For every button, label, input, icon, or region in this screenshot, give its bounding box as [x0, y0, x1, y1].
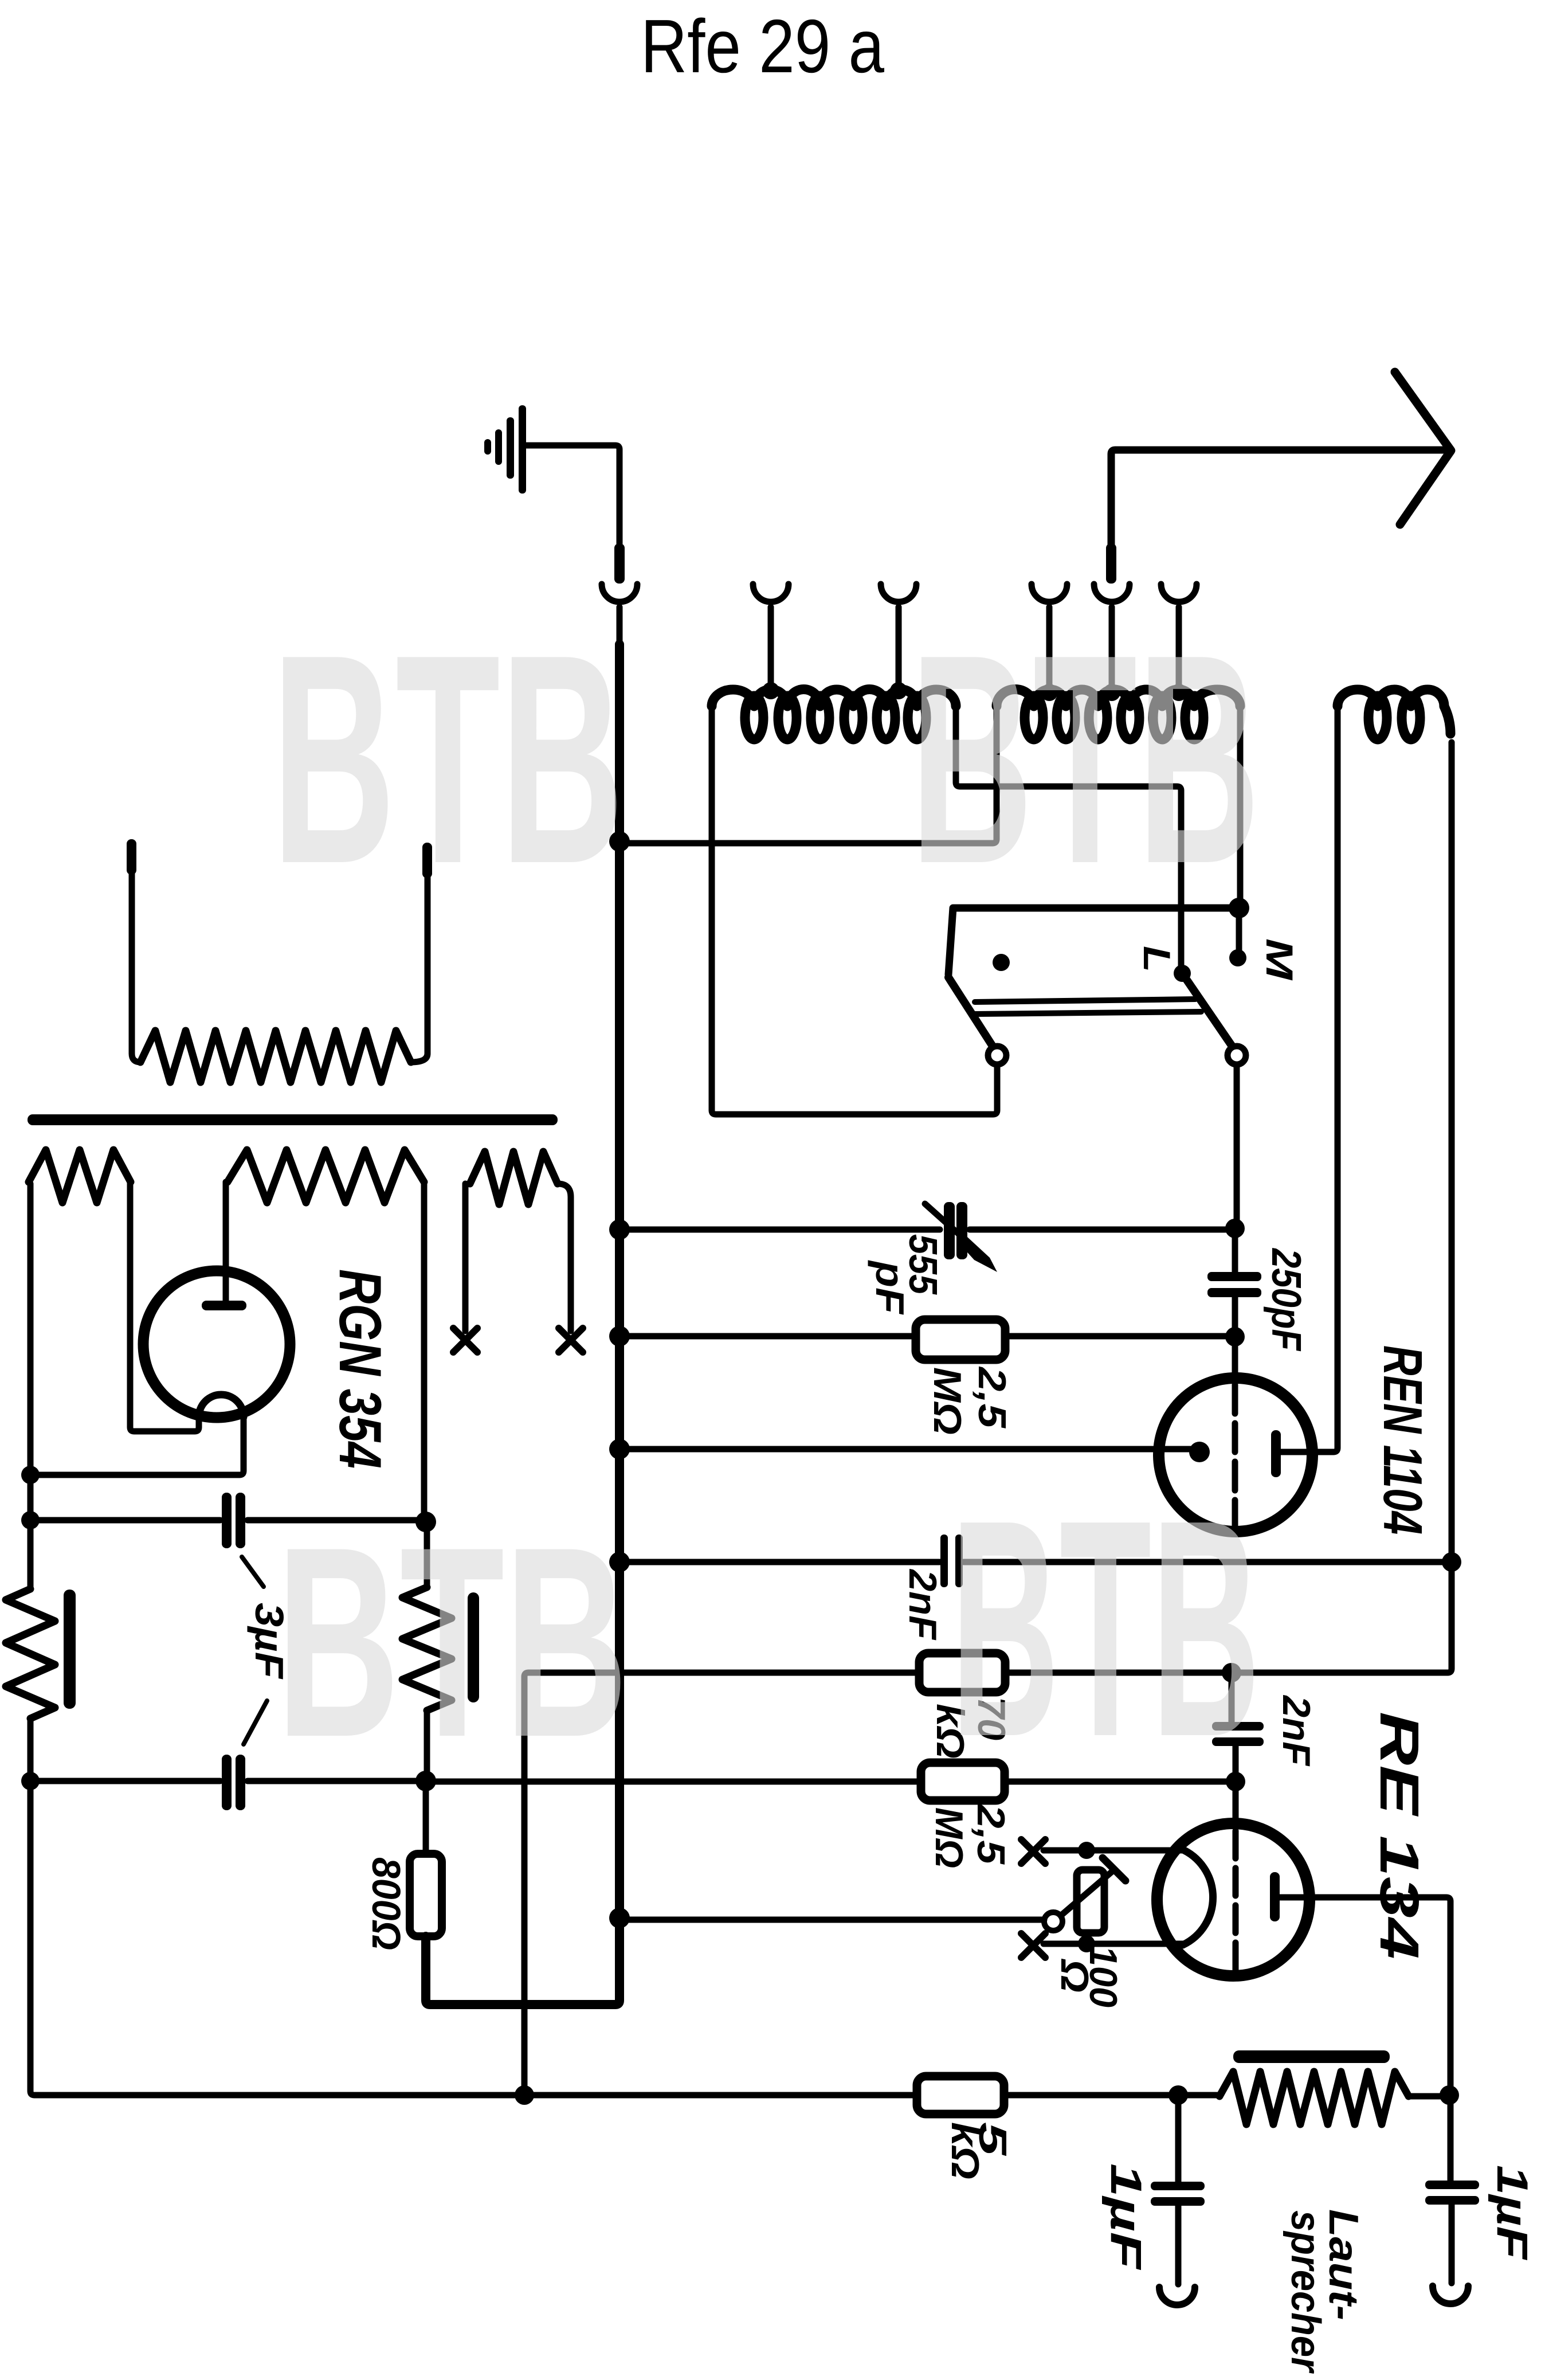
- node 3uF1 left: [21, 1511, 40, 1529]
- node switch rail: [1229, 898, 1249, 918]
- RGN filament arc: [199, 1395, 244, 1417]
- wire 3uF2 node to 2.5M2: [30, 1778, 220, 1784]
- svg-text:kΩ: kΩ: [943, 2122, 987, 2179]
- wire Rc left lead: [462, 1184, 469, 1331]
- x terminal lower: [1021, 1933, 1045, 1958]
- wire coil1 right to contact L: [956, 706, 1181, 968]
- wire node to 800ohm: [423, 1784, 429, 1854]
- node rail-grid return: [515, 2085, 534, 2105]
- tube REN 1104: [1159, 1378, 1312, 1532]
- svg-text:pF: pF: [868, 1260, 912, 1316]
- svg-text:Ω: Ω: [1053, 1958, 1096, 1993]
- capacitor 2nF (1): [940, 1535, 963, 1587]
- wire REN anode to coil L3: [1281, 706, 1338, 1452]
- wire bus to pot wiper: [619, 1917, 1044, 1923]
- variable capacitor 555pF: [925, 1202, 997, 1272]
- wire RE134 anode to output: [1280, 1897, 1450, 2089]
- node pot bottom: [1078, 1935, 1095, 1952]
- terminal socket 1 (ground/bus): [602, 584, 637, 644]
- wire node to Rd: [424, 1526, 430, 1587]
- inductor coil L3 (reaction): [1338, 690, 1450, 739]
- wire speaker to node: [1409, 2093, 1446, 2100]
- svg-text:2nF: 2nF: [901, 1568, 944, 1640]
- capacitor 3uF (2): [222, 1755, 245, 1810]
- wire 2.5M to grid node: [1005, 1333, 1232, 1340]
- wire bus to REN cathode: [619, 1446, 1192, 1453]
- capacitor bar left: [64, 1590, 76, 1709]
- resistor Ra (filament shunt): [29, 1150, 131, 1203]
- wire left column lower: [28, 1719, 34, 1777]
- switch lever right: [1182, 973, 1246, 1064]
- wire Rc right lead: [558, 1184, 571, 1331]
- dropper lead left: [132, 873, 140, 1062]
- node 800ohm top: [415, 1771, 436, 1791]
- svg-text:BTB: BTB: [951, 1456, 1260, 1801]
- svg-text:800Ω: 800Ω: [364, 1857, 409, 1950]
- svg-text:2nF: 2nF: [1275, 1694, 1318, 1766]
- node 1uF2 top: [1440, 2085, 1459, 2105]
- inductor coil L1: [712, 689, 956, 739]
- contact L: [1174, 965, 1191, 982]
- terminal socket 3: [881, 584, 916, 688]
- node coil3-2nF: [1442, 1552, 1461, 1572]
- node 3uF2 left: [21, 1772, 40, 1790]
- wire bus to coil2 left end: [619, 706, 997, 843]
- switch pivot dot: [993, 954, 1010, 971]
- tube RE 134: [1157, 1823, 1309, 1976]
- wire left column to bottom rail: [30, 1785, 917, 2095]
- node bus-wiper: [609, 1908, 630, 1928]
- x terminal Rc left: [453, 1328, 477, 1352]
- node bus-2nF: [609, 1552, 630, 1572]
- wire left column upper: [28, 1184, 34, 1471]
- potentiometer 100ohm: [1061, 1858, 1126, 1933]
- switch frame: [948, 908, 1239, 974]
- node grid REN: [1225, 1327, 1245, 1346]
- terminal socket 6: [1161, 584, 1197, 691]
- terminal socket 5 (antenna): [1094, 584, 1130, 691]
- inductor coil L2: [997, 690, 1240, 739]
- wire 2.5M2 to grid node: [1005, 1779, 1232, 1785]
- svg-text:BTB: BTB: [272, 593, 624, 926]
- capacitor bar right: [468, 1592, 479, 1702]
- resistor Rc (heater): [470, 1152, 558, 1204]
- terminal socket 2: [753, 584, 789, 688]
- node coil2 tap b: [1103, 684, 1120, 701]
- node filament return: [21, 1466, 40, 1484]
- wire 3uF2 to node: [248, 1778, 422, 1784]
- node grid RE134: [1226, 1772, 1245, 1791]
- svg-text:250pF: 250pF: [1263, 1247, 1309, 1351]
- grid lead RE134: [1233, 1785, 1239, 1824]
- svg-text:REN 1104: REN 1104: [1372, 1345, 1433, 1535]
- grid lead REN 1104: [1232, 1341, 1238, 1378]
- wire filament left to Ra: [130, 1182, 199, 1431]
- wire coil3 right end down: [1449, 742, 1455, 1557]
- svg-text:Rfe 29 a: Rfe 29 a: [641, 4, 884, 88]
- svg-text:RE 134: RE 134: [1368, 1712, 1430, 1959]
- tube RGN 354: [143, 1271, 290, 1418]
- wire Rd to node: [424, 1710, 430, 1777]
- node bus-cathode: [609, 1439, 630, 1459]
- svg-text:RGN 354: RGN 354: [327, 1269, 393, 1469]
- svg-text:MΩ: MΩ: [927, 1807, 971, 1868]
- node bus-555pF: [609, 1219, 630, 1240]
- pot wiper contact: [1044, 1912, 1062, 1931]
- contact M stub: [1236, 913, 1242, 950]
- ground plug pin: [614, 543, 625, 584]
- wire 5k to speaker: [1004, 2092, 1219, 2099]
- wire 555pF to junction: [970, 1227, 1232, 1233]
- RGN anode plate: [202, 1301, 246, 1310]
- x terminal upper: [1021, 1839, 1045, 1864]
- wire bus to 2.5M resistor: [619, 1333, 916, 1340]
- svg-text:2,5: 2,5: [969, 1803, 1013, 1865]
- node pot top: [1078, 1842, 1095, 1859]
- capacitor 3uF (1): [222, 1493, 245, 1548]
- REN cathode dot: [1189, 1442, 1210, 1462]
- antenna plug pin: [1106, 543, 1116, 584]
- capacitor 250pF: [1207, 1230, 1261, 1333]
- antenna: [1111, 372, 1451, 545]
- svg-text:BTB: BTB: [276, 1491, 628, 1794]
- wire left column to resistor: [28, 1524, 34, 1589]
- resistor 70k: [919, 1653, 1005, 1692]
- wire 2nF to coil3 node: [964, 1559, 1448, 1565]
- svg-text:sprecher: sprecher: [1283, 2210, 1328, 2374]
- capacitor 1uF (2): [1425, 2099, 1479, 2283]
- node 1uF1 top: [1168, 2085, 1188, 2105]
- node bus-coil2: [609, 831, 630, 852]
- RE134 anode plate: [1270, 1872, 1280, 1921]
- svg-text:MΩ: MΩ: [926, 1367, 969, 1435]
- resistor 800ohm: [410, 1854, 442, 1936]
- node 3uF1 right: [415, 1512, 436, 1532]
- ground: [484, 405, 619, 543]
- node bus-2.5M: [609, 1326, 630, 1346]
- capacitor 2nF (2): [1212, 1673, 1264, 1778]
- wire x to filament top: [1044, 1847, 1182, 1854]
- svg-text:1µF: 1µF: [1101, 2163, 1150, 2271]
- wire x to filament bottom: [1044, 1941, 1184, 1947]
- REN anode plate: [1271, 1430, 1281, 1477]
- RGN anode lead: [223, 1182, 229, 1301]
- resistor 2.5M (grid leak REN): [916, 1320, 1005, 1360]
- svg-text:BTB: BTB: [910, 593, 1260, 926]
- wire 70k to left corner down to rail: [524, 1673, 919, 2091]
- switch lever left: [948, 977, 1006, 1064]
- wire bus to 555pF: [619, 1227, 940, 1233]
- node 2nF2 tap: [1222, 1663, 1241, 1682]
- wire filament right to node: [34, 1416, 244, 1475]
- svg-text:2,5: 2,5: [970, 1366, 1014, 1429]
- node coil2 tap a: [1041, 684, 1058, 701]
- dropper resistor: [140, 1031, 411, 1082]
- wire node to 3uF1: [34, 1517, 220, 1524]
- svg-text:1µF: 1µF: [1488, 2165, 1536, 2261]
- wire node to 2.5M2: [429, 1779, 921, 1785]
- wire lever to 555pF junction: [1234, 1064, 1240, 1224]
- wire left column mid: [28, 1479, 34, 1516]
- output hook 2: [1433, 2286, 1468, 2304]
- wire coil2 right end: [1237, 706, 1244, 908]
- switch coupling bar: [975, 999, 1201, 1014]
- output hook 1: [1159, 2287, 1195, 2305]
- 3uF pointer dashes: [242, 1557, 267, 1744]
- node coil2 tap c: [1170, 684, 1187, 701]
- node coil1 tap b: [890, 682, 907, 699]
- main bus wire: [426, 644, 619, 2005]
- resistor Rd: [402, 1587, 452, 1710]
- svg-text:L: L: [1136, 946, 1178, 972]
- resistor anode bleeder left: [6, 1589, 55, 1719]
- resistor 5k: [917, 2076, 1004, 2114]
- wire bus to 2nF: [619, 1559, 940, 1565]
- node coil1 tap a: [762, 682, 779, 699]
- loudspeaker winding: [1219, 2050, 1409, 2124]
- x terminal Rc right: [559, 1328, 583, 1352]
- resistor Rb (anode feed): [228, 1150, 424, 1203]
- capacitor 1uF (1): [1151, 2099, 1205, 2284]
- wire coil1 left to switch lever: [712, 706, 997, 1114]
- dropper lead right: [411, 876, 428, 1062]
- wire grid circuit RE134 right part: [1006, 1567, 1452, 1673]
- battery bar: [28, 1114, 558, 1125]
- contact M: [1229, 949, 1246, 966]
- wire Rb right lead: [421, 1182, 428, 1518]
- wire 3uF1 to node: [248, 1517, 422, 1524]
- terminal socket 4: [1032, 584, 1067, 691]
- node 555pF-M: [1225, 1219, 1245, 1238]
- svg-text:M: M: [1258, 938, 1301, 981]
- RE134 filament arc: [1181, 1849, 1213, 1945]
- resistor 2.5M (2): [921, 1763, 1005, 1800]
